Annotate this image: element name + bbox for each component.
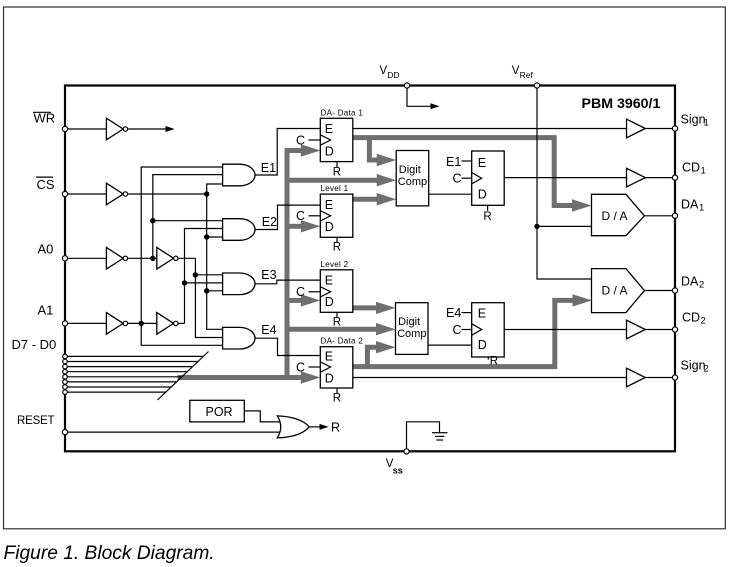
POR block <box>190 400 245 422</box>
pin D0 <box>63 390 68 395</box>
pin DA2 <box>672 288 677 293</box>
pin A1 <box>62 321 67 326</box>
junction node D to E3 <box>193 272 198 277</box>
chip boundary box <box>65 86 675 452</box>
wire CD2 buffer to pin <box>645 329 675 331</box>
pin VRef <box>534 83 539 88</box>
svg-text:E1: E1 <box>261 161 276 175</box>
wire column D (A0) to E4 input 2 <box>195 258 223 337</box>
svg-text:Sign: Sign <box>681 112 706 126</box>
svg-text:D: D <box>325 371 334 385</box>
Digit Comp 2 <box>396 303 429 355</box>
output buffer CD1 <box>627 168 646 187</box>
wire RESET input to OR gate <box>67 431 284 433</box>
wire data bus arrow into DA-Data2 D input <box>301 371 321 383</box>
svg-text:Level 1: Level 1 <box>321 184 349 193</box>
junction VRef to D/A 1 <box>534 224 539 229</box>
junction node C to E3 <box>182 280 187 285</box>
svg-text:C: C <box>453 323 462 337</box>
svg-text:DA- Data 1: DA- Data 1 <box>321 108 364 117</box>
svg-text:D: D <box>478 187 487 201</box>
wire data bit D3 <box>67 376 182 378</box>
wire column C branch to E3 input 2 <box>185 282 223 284</box>
wire DA-Data2 output branch to Digit Comp 2 bottom input <box>367 347 379 366</box>
pin D6 <box>63 359 68 364</box>
wire E1 flip-flop output to CD1 buffer <box>504 177 626 179</box>
wire POR output to OR gate <box>244 411 283 422</box>
wire column C (A1) to E2 input 2 <box>185 229 223 324</box>
wire Level2 output bus to Digit Comp 2 top input <box>353 305 379 310</box>
wire data bus arrow into DA-Data1 D input <box>301 144 321 156</box>
junction node E to E3 <box>204 288 209 293</box>
svg-text:Figure 1. Block Diagram.: Figure 1. Block Diagram. <box>4 543 215 564</box>
wire E1 to DA-Data1 E input <box>255 129 320 176</box>
svg-text:DD: DD <box>387 70 399 80</box>
svg-text:E4: E4 <box>446 306 461 320</box>
svg-text:1: 1 <box>699 202 704 213</box>
wire A0 input <box>67 257 106 259</box>
wire E3 to Level2 E input <box>255 280 320 284</box>
wire WR buffered with arrow <box>128 128 166 130</box>
wire A1 double-inverted to column C <box>178 322 185 324</box>
pin D7 <box>63 354 68 359</box>
svg-text:D: D <box>325 220 334 234</box>
wire data bit D2 <box>67 381 176 383</box>
svg-text:E4: E4 <box>261 323 276 337</box>
wire OR output R with arrow <box>309 426 320 428</box>
svg-text:CD: CD <box>682 310 700 324</box>
wire data bit D7 <box>67 355 203 357</box>
inverter WR <box>106 118 123 140</box>
svg-text:C: C <box>296 133 305 147</box>
wire data bus main horizontal run <box>178 375 305 380</box>
latch Level 2 <box>296 260 353 329</box>
svg-text:2: 2 <box>701 315 706 326</box>
svg-text:D: D <box>478 338 487 352</box>
flip-flop E1/CD1 <box>446 151 504 223</box>
wire DA-Data1 output branch to Digit Comp 1 top input <box>369 138 380 160</box>
wire column A (A1 inverted) to E1 and E4 <box>141 167 223 345</box>
wire VSS to ground hook <box>407 422 440 450</box>
pin RESET <box>62 430 67 435</box>
svg-text:POR: POR <box>206 405 233 419</box>
wire A0 inverted segment <box>128 257 157 259</box>
wire data bit D0 <box>67 391 166 393</box>
svg-text:A1: A1 <box>38 303 54 318</box>
svg-text:C: C <box>296 360 305 374</box>
svg-text:C: C <box>296 209 305 223</box>
svg-text:R: R <box>331 421 340 435</box>
svg-text:E: E <box>325 274 333 288</box>
svg-text:D / A: D / A <box>602 284 628 298</box>
pin VSS <box>404 449 409 454</box>
wire data bus branch to Level 1 D input <box>287 224 301 229</box>
ground symbol <box>432 432 448 434</box>
wire DA-Data2 output bus to D/A 2 <box>353 300 576 366</box>
inverter CS <box>106 183 123 205</box>
svg-text:RESET: RESET <box>17 415 55 427</box>
wire column E branch to E2 input 3 <box>207 236 223 238</box>
inverter A0 second <box>157 248 174 270</box>
inverter A1 second <box>157 313 174 335</box>
AND gate E1 <box>223 164 255 186</box>
svg-text:Sign: Sign <box>681 358 706 372</box>
svg-text:V: V <box>380 65 388 77</box>
wire E4 to DA-Data2 E input <box>255 338 320 355</box>
svg-text:D / A: D / A <box>602 209 628 223</box>
wire column D branch to E3 input 1 <box>195 274 222 276</box>
svg-text:CS: CS <box>37 177 55 192</box>
pin CD1 <box>672 175 677 180</box>
wire column B (A0 inverted) to E1 <box>153 175 223 259</box>
wire column E (CS) up to E1 input 3 <box>207 184 223 194</box>
wire VDD stub with arrow <box>407 87 431 106</box>
svg-text:C: C <box>296 285 305 299</box>
wire data bus branch to Level 2 D input <box>287 298 301 303</box>
wire D/A 2 output to DA2 pin <box>644 290 675 292</box>
wire column E down to E4 input 1 <box>207 194 223 329</box>
wire data bus vertical riser <box>287 151 301 378</box>
wire Level1 output bus to Digit Comp 1 bottom input <box>353 197 380 202</box>
wire A1 input <box>67 322 106 324</box>
svg-text:R: R <box>333 242 341 254</box>
latch DA-Data 1 <box>296 108 363 178</box>
wire Sign2 buffer to pin <box>645 377 675 379</box>
svg-text:1: 1 <box>701 165 706 176</box>
svg-text:Level 2: Level 2 <box>321 260 349 269</box>
wire VRef vertical to D/A 2 upper input <box>537 87 592 279</box>
svg-text:Digit: Digit <box>399 164 421 176</box>
Digit Comp 1 <box>396 151 429 206</box>
wire CS input <box>67 193 106 195</box>
pin DA1 <box>672 213 677 218</box>
wire data bus branch to Digit Comp 2 middle input <box>287 327 379 332</box>
junction node B on A0 row <box>150 256 155 261</box>
pin CS <box>62 191 67 196</box>
wire E2 to Level1 E input <box>255 205 320 229</box>
wire CS buffered to node column E <box>128 193 207 195</box>
wire data bit D1 <box>67 386 171 388</box>
output buffer CD2 <box>627 320 646 339</box>
pin D2 <box>63 380 68 385</box>
pin VDD <box>404 83 409 88</box>
pin Sign2 <box>672 375 677 380</box>
svg-text:DA: DA <box>681 274 699 288</box>
svg-text:R: R <box>490 355 498 367</box>
svg-text:V: V <box>512 65 520 77</box>
wire VRef branch to D/A 1 lower input <box>537 225 592 227</box>
wire column E branch to E3 input 3 <box>207 290 223 292</box>
pin Sign1 <box>672 126 677 131</box>
junction node B to E2 <box>150 218 155 223</box>
svg-text:DA: DA <box>681 197 699 211</box>
bus slash <box>158 352 209 401</box>
svg-text:E: E <box>325 198 333 212</box>
output buffer Sign1 <box>627 119 646 138</box>
wire D/A 1 output to DA1 pin <box>644 215 675 217</box>
AND gate E2 <box>223 219 255 241</box>
junction node A on A1 row <box>139 321 144 326</box>
pin D4 <box>63 369 68 374</box>
svg-text:E: E <box>478 156 486 170</box>
svg-text:A0: A0 <box>38 242 54 257</box>
flip-flop E4/CD2 <box>446 303 504 368</box>
svg-text:Digit: Digit <box>398 316 420 328</box>
wire WR input <box>67 128 106 130</box>
svg-text:DA- Data 2: DA- Data 2 <box>321 337 364 346</box>
pin D3 <box>63 375 68 380</box>
wire A0 double-inverted to column D <box>178 257 196 259</box>
wire DA-Data1 output bus to D/A 1 <box>353 138 575 206</box>
svg-text:PBM 3960/1: PBM 3960/1 <box>582 96 661 112</box>
svg-text:E: E <box>325 349 333 363</box>
svg-text:E1: E1 <box>446 155 461 169</box>
pin CD2 <box>672 327 677 332</box>
wire Sign2 from DA-Data2 to output buffer <box>353 377 627 379</box>
wire Digit Comp 1 output to E1 flip-flop D <box>429 193 472 195</box>
svg-text:Ref: Ref <box>520 70 534 80</box>
D/A 2 converter <box>592 269 645 313</box>
AND gate E3 <box>223 273 255 295</box>
svg-text:E: E <box>325 122 333 136</box>
svg-text:E2: E2 <box>262 215 277 229</box>
svg-text:R: R <box>333 392 341 404</box>
wire E4 flip-flop output to CD2 buffer <box>504 329 626 331</box>
svg-text:2: 2 <box>699 279 704 290</box>
wire data bit D6 <box>67 361 198 363</box>
output buffer Sign2 <box>627 368 646 387</box>
latch Level 1 <box>296 184 353 253</box>
pin WR <box>62 126 67 131</box>
svg-text:D7 - D0: D7 - D0 <box>12 337 57 352</box>
junction node E to E2 <box>204 234 209 239</box>
svg-text:D: D <box>325 295 334 309</box>
latch DA-Data 2 <box>296 337 363 405</box>
svg-text:2: 2 <box>704 363 709 374</box>
svg-text:1: 1 <box>704 117 709 128</box>
pin A0 <box>62 256 67 261</box>
svg-text:R: R <box>333 317 341 329</box>
svg-text:D: D <box>325 144 334 158</box>
AND gate E4 <box>223 327 255 349</box>
wire Sign1 buffer to pin <box>645 128 675 130</box>
inverter A0 first <box>106 248 123 270</box>
wire Sign1 from DA-Data1 to output buffer <box>353 128 627 130</box>
svg-text:R: R <box>333 167 341 179</box>
svg-text:C: C <box>453 172 462 186</box>
wire column B branch to E2 input 1 <box>153 220 223 222</box>
svg-text:Comp: Comp <box>397 328 426 340</box>
inverter A1 first <box>106 313 123 335</box>
pin D1 <box>63 385 68 390</box>
wire data bit D5 <box>67 366 192 368</box>
pin D5 <box>63 364 68 369</box>
wire CD1 buffer to pin <box>645 177 675 179</box>
svg-text:CD: CD <box>682 160 700 174</box>
wire data bit D4 <box>67 371 187 373</box>
svg-text:R: R <box>483 211 491 223</box>
wire A1 inverted segment <box>128 322 157 324</box>
OR gate POR/RESET <box>277 416 309 438</box>
wire Digit Comp 2 output to E4 flip-flop D <box>428 344 472 346</box>
svg-text:E: E <box>478 307 486 321</box>
junction node E on CS row <box>204 191 209 196</box>
wire data bus branch to Digit Comp 1 middle input <box>287 178 380 183</box>
svg-text:ss: ss <box>393 466 403 476</box>
svg-text:Comp: Comp <box>398 176 427 188</box>
D/A 1 converter <box>592 194 645 235</box>
svg-text:E3: E3 <box>261 268 276 282</box>
